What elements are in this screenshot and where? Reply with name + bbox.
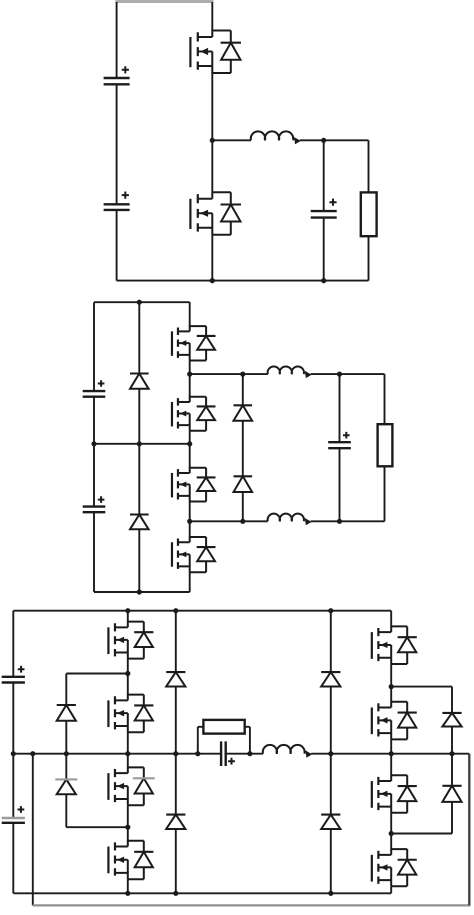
wire Q7-Q8 bbox=[127, 659, 129, 695]
wire lower phase line bbox=[190, 520, 268, 522]
wire output cap branch bbox=[339, 374, 341, 521]
wire phase line cap-to-coil bbox=[226, 753, 263, 755]
transistor Q6 (MOSFET with body diode) bbox=[172, 537, 216, 573]
capacitor C5 (lower DC-link) bbox=[83, 496, 106, 512]
node lower clamp at left leg bbox=[125, 825, 130, 830]
wire Q5-Q6 with phase node bbox=[189, 502, 191, 538]
wire top DC rail bbox=[13, 610, 391, 612]
node lower phase at leg bbox=[187, 519, 192, 524]
node bottom rail at right diode rail bbox=[328, 891, 333, 896]
capacitor C9 (series, on phase line) bbox=[221, 741, 235, 766]
diode D10 (right rail lower) bbox=[321, 815, 340, 829]
wire resistor stubs bbox=[198, 726, 250, 728]
node upper phase at C6 bbox=[337, 372, 342, 377]
node top rail at right diode rail bbox=[328, 608, 333, 613]
wire upper-left clamp link bbox=[66, 673, 128, 675]
node bottom rail at left leg bbox=[125, 891, 130, 896]
wire output cap branch bbox=[323, 140, 325, 280]
wire phase node A to filter inductor bbox=[212, 139, 251, 141]
transistor Q10 (MOSFET with body diode) bbox=[108, 840, 153, 879]
node phase at left clamp rail bbox=[64, 751, 69, 756]
wire lower-left clamp link bbox=[66, 826, 128, 828]
diode D8 (left rail lower) bbox=[166, 815, 185, 829]
wire top DC rail (grey, clipped at figure edge) bbox=[115, 0, 213, 3]
capacitor C2 (lower DC-link) bbox=[104, 192, 130, 210]
diode D11 (right clamp upper) bbox=[442, 713, 461, 727]
wire left clamp rail bbox=[65, 674, 67, 828]
wire right diode rail bbox=[330, 611, 332, 894]
wire Q13-Q14 bbox=[390, 813, 392, 849]
wire Q9-Q10 bbox=[127, 805, 129, 841]
wire phase line left section bbox=[13, 753, 221, 755]
wire upper-right clamp link bbox=[391, 686, 452, 688]
wire bottom DC rail bbox=[13, 892, 391, 894]
node upper clamp at left leg bbox=[125, 671, 130, 676]
wire switch-leg drain of Q1 bbox=[211, 2, 213, 31]
node top rail at left diode rail bbox=[173, 608, 178, 613]
node bottom rail at left diode rail bbox=[173, 891, 178, 896]
wire lower-right clamp link bbox=[391, 833, 452, 835]
transistor Q2 (low-side MOSFET with body diode) bbox=[190, 192, 241, 235]
wire RC left riser bbox=[197, 727, 199, 754]
node phase at RC left bbox=[195, 751, 200, 756]
diode D7 (left rail upper) bbox=[166, 672, 185, 686]
node bottom rail at C3 bbox=[321, 278, 326, 283]
resistor R3 (damping, parallel) bbox=[203, 720, 244, 734]
wire Q14 source to bottom rail bbox=[390, 886, 392, 893]
wire switch leg top bbox=[189, 302, 191, 326]
transistor Q8 (MOSFET with body diode) bbox=[108, 694, 153, 732]
wire Q11-Q12 bbox=[390, 664, 392, 702]
diode D3 (upper freewheel) bbox=[234, 405, 253, 420]
node lower clamp at right leg bbox=[389, 831, 394, 836]
wire Q6 source to bottom rail bbox=[189, 572, 191, 592]
node phase at RC right bbox=[247, 751, 252, 756]
wire phase node A to Q2 drain bbox=[211, 140, 213, 192]
wire left leg top bbox=[127, 611, 129, 622]
node neutral at switch leg bbox=[187, 441, 192, 446]
node clamp rail at bottom rail bbox=[137, 589, 142, 594]
capacitor C3 (output filter) bbox=[311, 199, 337, 218]
wire right clamp rail bbox=[451, 687, 453, 834]
node upper clamp at right leg bbox=[389, 684, 394, 689]
wire Q2 source to bottom rail bbox=[211, 235, 213, 281]
node top rail at left leg bbox=[125, 608, 130, 613]
node phase at right clamp rail bbox=[449, 751, 454, 756]
wire L2 to output bbox=[311, 374, 385, 424]
node phase at right leg bbox=[389, 751, 394, 756]
transistor Q9 (MOSFET with body diode, grey diode bar) bbox=[108, 767, 154, 805]
wire output node down to load R1 bbox=[368, 140, 370, 192]
transistor Q7 (MOSFET with body diode) bbox=[108, 621, 153, 659]
diode D5 (left clamp upper) bbox=[57, 705, 76, 721]
wire Q4-Q5 neutral link bbox=[189, 431, 191, 468]
wire left DC rail bbox=[12, 611, 14, 894]
node phase at left DC rail bbox=[11, 751, 16, 756]
node phase at right diode rail bbox=[328, 751, 333, 756]
wire L3 to output bbox=[311, 466, 385, 521]
diode D2 (lower clamp) bbox=[130, 515, 149, 530]
transistor Q12 (MOSFET with body diode) bbox=[372, 701, 417, 739]
node lower phase at freewheel rail bbox=[240, 519, 245, 524]
diode D6 (left clamp lower, grey bar) bbox=[55, 779, 77, 794]
wire right leg top bbox=[390, 611, 392, 627]
node output junction (L1/C3/R1) bbox=[321, 138, 326, 143]
wire left DC rail bbox=[116, 2, 118, 281]
node phase at neutral rail 2 bbox=[30, 751, 35, 756]
wire Q1 source to phase node A bbox=[211, 73, 213, 140]
wire RC right riser bbox=[249, 727, 251, 754]
node neutral at left rail bbox=[91, 441, 96, 446]
wire top DC rail bbox=[94, 301, 190, 303]
diode D4 (lower freewheel) bbox=[234, 476, 253, 492]
diode D12 (right clamp lower) bbox=[442, 786, 461, 802]
node upper phase at leg bbox=[187, 372, 192, 377]
node lower phase at C6 bbox=[337, 519, 342, 524]
wire Q12-Q13 with phase node bbox=[390, 739, 392, 775]
node phase at left diode rail bbox=[173, 751, 178, 756]
node upper phase at freewheel rail bbox=[240, 372, 245, 377]
wire upper phase line bbox=[190, 373, 268, 375]
capacitor C7 (upper DC-link) bbox=[2, 666, 25, 683]
resistor R1 (load) bbox=[361, 192, 377, 236]
diode D9 (right rail upper) bbox=[321, 672, 340, 686]
transistor Q13 (MOSFET with body diode) bbox=[372, 775, 417, 813]
capacitor C1 (upper DC-link) bbox=[104, 66, 130, 84]
wire Q8-Q9 with phase node bbox=[127, 732, 129, 767]
inductor L2 (upper filter) bbox=[268, 366, 312, 378]
wire right return riser (dark) bbox=[468, 754, 470, 906]
wire L1 to output node bbox=[300, 139, 369, 141]
wire neutral rail bbox=[94, 443, 190, 445]
node phase at left leg bbox=[125, 751, 130, 756]
wire clamp-diode rail bbox=[138, 302, 140, 592]
wire bottom return rail bbox=[117, 280, 369, 282]
diode D1 (upper clamp) bbox=[130, 374, 149, 389]
transistor Q5 (MOSFET with body diode) bbox=[172, 467, 216, 501]
node neutral at clamp rail bbox=[137, 441, 142, 446]
inductor L3 (lower filter) bbox=[268, 514, 312, 526]
capacitor C6 (output filter) bbox=[328, 432, 351, 448]
transistor Q14 (MOSFET with body diode) bbox=[372, 849, 417, 887]
inductor L4 (phase) bbox=[263, 745, 312, 758]
wire left DC rail bbox=[93, 302, 95, 592]
transistor Q1 (high-side MOSFET with body diode) bbox=[190, 30, 241, 73]
node clamp rail at top rail bbox=[137, 300, 142, 305]
wire left diode rail bbox=[175, 611, 177, 894]
wire bottom return rail (grey, clipped at figure edge) bbox=[33, 904, 471, 906]
wire bottom DC rail bbox=[94, 591, 190, 593]
transistor Q11 (MOSFET with body diode) bbox=[372, 626, 417, 664]
wire Q10 source to bottom rail bbox=[127, 879, 129, 893]
wire R1 to bottom rail bbox=[368, 236, 370, 280]
wire freewheel diode rail bbox=[242, 374, 244, 521]
capacitor C4 (upper DC-link) bbox=[83, 380, 106, 397]
wire Q3-Q4 with phase node bbox=[189, 361, 191, 397]
resistor R2 (load) bbox=[378, 424, 393, 466]
transistor Q3 (MOSFET with body diode) bbox=[172, 326, 216, 361]
node phase A junction bbox=[210, 138, 215, 143]
node bottom rail at Q2 source bbox=[210, 278, 215, 283]
wire phase line right section bbox=[311, 753, 469, 755]
capacitor C8 (lower DC-link, grey top plate) bbox=[2, 806, 25, 823]
inductor L1 (output filter) bbox=[251, 131, 301, 144]
transistor Q4 (MOSFET with body diode) bbox=[172, 396, 216, 431]
wire neutral rail 2 down-leg bbox=[32, 754, 34, 906]
